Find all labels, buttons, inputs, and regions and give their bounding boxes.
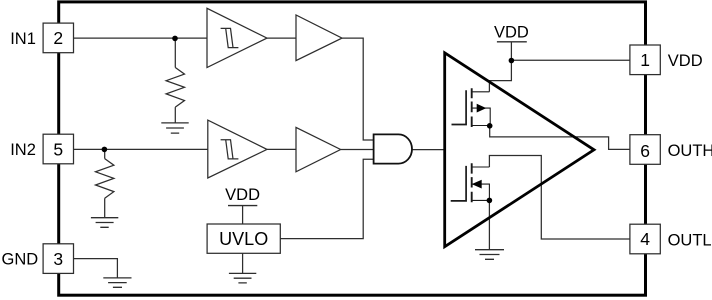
svg-text:VDD: VDD [668, 52, 703, 70]
svg-text:OUTL: OUTL [668, 231, 712, 249]
svg-text:UVLO: UVLO [219, 229, 268, 249]
svg-text:OUTH: OUTH [668, 142, 712, 160]
svg-text:IN2: IN2 [10, 141, 36, 159]
svg-text:IN1: IN1 [10, 30, 36, 48]
svg-text:VDD: VDD [494, 23, 529, 41]
svg-text:5: 5 [53, 140, 63, 160]
svg-text:VDD: VDD [225, 186, 260, 204]
svg-text:6: 6 [640, 141, 650, 161]
svg-text:GND: GND [2, 251, 39, 269]
svg-text:3: 3 [53, 249, 63, 269]
svg-text:4: 4 [640, 229, 650, 249]
svg-text:1: 1 [640, 50, 650, 70]
svg-text:2: 2 [53, 28, 63, 48]
